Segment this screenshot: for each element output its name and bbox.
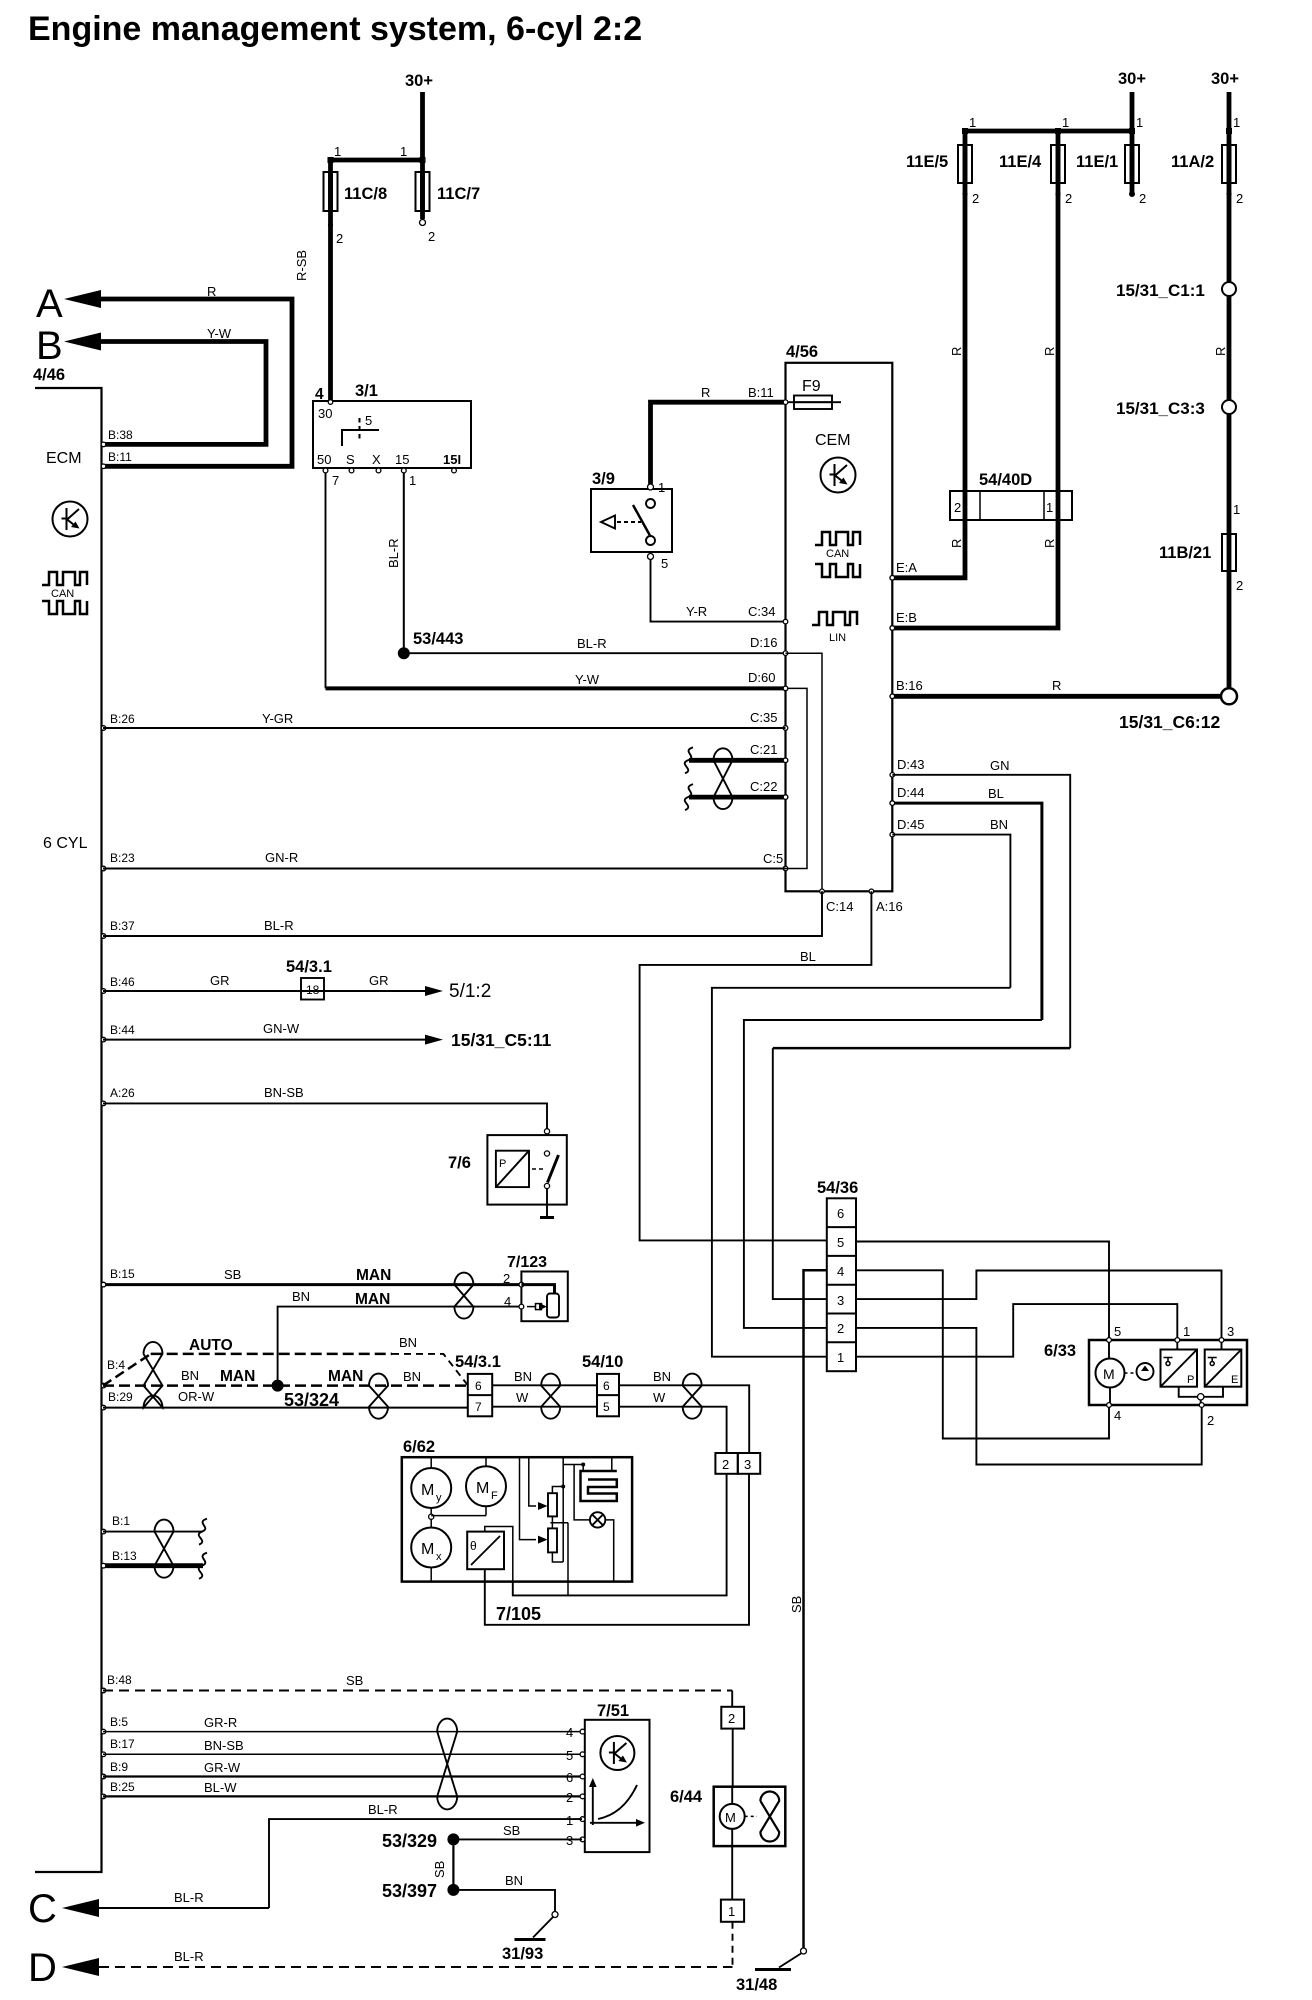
svg-text:R: R [1042, 347, 1057, 356]
svg-text:D:44: D:44 [897, 785, 924, 800]
connector node 15/31_C6:12 [1119, 688, 1237, 732]
svg-text:CAN: CAN [826, 548, 849, 560]
svg-text:54/10: 54/10 [582, 1353, 623, 1371]
svg-text:C:34: C:34 [748, 604, 775, 619]
svg-text:1: 1 [1233, 502, 1240, 517]
svg-text:2: 2 [728, 1711, 735, 1726]
svg-text:SB: SB [503, 1823, 520, 1838]
connector 54/40D [950, 471, 1072, 520]
svg-text:B:37: B:37 [110, 919, 135, 933]
svg-text:7/123: 7/123 [507, 1254, 547, 1271]
connector pins 2 and 3 of 6/62 [715, 1453, 760, 1474]
svg-text:W: W [653, 1390, 666, 1405]
svg-text:BN: BN [990, 817, 1008, 832]
svg-text:B:16: B:16 [896, 678, 923, 693]
svg-text:R: R [949, 539, 964, 548]
arrow D dashed wire BL-R [28, 1946, 733, 1990]
svg-text:15: 15 [395, 452, 409, 467]
svg-text:6: 6 [837, 1206, 844, 1221]
svg-text:A: A [36, 282, 63, 326]
svg-text:6/44: 6/44 [670, 1788, 703, 1806]
CEM LIN symbol [812, 612, 857, 644]
svg-text:BL-R: BL-R [174, 1890, 204, 1905]
wire R 54/40D:2 to CEM E:A [892, 520, 965, 578]
svg-text:Y-GR: Y-GR [262, 711, 293, 726]
svg-text:MAN: MAN [328, 1368, 363, 1385]
svg-text:X: X [372, 452, 381, 467]
svg-text:1: 1 [658, 480, 665, 495]
30+ feed (left) [328, 72, 434, 163]
svg-text:53/397: 53/397 [382, 1881, 437, 1901]
svg-text:y: y [436, 1492, 442, 1504]
svg-text:1: 1 [566, 1813, 573, 1828]
ECM pin B:1 stub wire [101, 1514, 207, 1545]
svg-text:6/62: 6/62 [403, 1438, 435, 1456]
fuse 11E/5 [906, 131, 979, 491]
svg-text:BN: BN [403, 1369, 421, 1384]
6/62 resistor R2 [548, 1523, 563, 1562]
svg-text:30+: 30+ [405, 72, 433, 90]
svg-text:B:11: B:11 [108, 450, 132, 464]
svg-text:11C/7: 11C/7 [437, 185, 480, 203]
svg-text:30+: 30+ [1118, 70, 1146, 88]
svg-text:C:22: C:22 [750, 779, 777, 794]
arrow B with wire Y-W from ECM B:38 [36, 324, 266, 444]
svg-text:C: C [28, 1887, 57, 1931]
svg-text:2: 2 [1139, 191, 1146, 206]
svg-text:D: D [28, 1946, 57, 1990]
svg-text:4: 4 [837, 1264, 844, 1279]
svg-text:2: 2 [837, 1321, 844, 1336]
svg-text:MAN: MAN [220, 1368, 255, 1385]
svg-text:2: 2 [428, 229, 435, 244]
wire BL CEM A:16 down to 54/36:5 [640, 891, 872, 1240]
svg-text:B:15: B:15 [110, 1267, 135, 1281]
connector 54/3.1 cells 6/7 [455, 1353, 501, 1416]
6/33 fuel level sensor E [1205, 1342, 1242, 1387]
CEM C:22 twisted stub [685, 784, 786, 810]
svg-text:F9: F9 [802, 378, 821, 395]
solenoid valve 7/123 [507, 1254, 568, 1321]
svg-text:BL-R: BL-R [264, 918, 294, 933]
svg-text:1: 1 [1046, 500, 1053, 515]
ground switch 31/48 [736, 1948, 807, 1994]
svg-text:θ: θ [470, 1539, 477, 1553]
ECM pin B:46 wire GR via 54/3.1:18 to 5/1:2 [101, 958, 491, 1002]
fuse F9 inside CEM [786, 378, 842, 409]
svg-text:GR: GR [210, 973, 230, 988]
wire BN 7/123 to splice 53/324 [278, 1289, 522, 1386]
splice 53/397 [382, 1881, 459, 1901]
svg-text:BL: BL [988, 786, 1004, 801]
7/51 characteristic curve symbol [589, 1778, 645, 1827]
svg-text:7/105: 7/105 [496, 1604, 541, 1624]
svg-text:B:4: B:4 [107, 1358, 125, 1372]
svg-text:SB: SB [346, 1673, 363, 1688]
wire BL CEM D:44 down to 54/36:2 [744, 786, 1042, 1328]
ECM pin B:17 wire BN-SB to 7/51:5 [101, 1737, 582, 1763]
6/62 indicator lamp [574, 1465, 614, 1582]
svg-text:54/40D: 54/40D [979, 471, 1032, 489]
svg-text:18: 18 [306, 983, 320, 997]
AC control unit 6/62 [402, 1438, 632, 1582]
pin markers over thick wires [101, 400, 894, 1568]
svg-text:GR: GR [369, 973, 389, 988]
svg-text:11E/4: 11E/4 [999, 153, 1042, 171]
svg-text:C:5: C:5 [763, 851, 783, 866]
svg-text:B:29: B:29 [108, 1390, 133, 1404]
svg-text:3: 3 [744, 1457, 751, 1472]
wire R 54/40D:1 to CEM E:B [892, 520, 1058, 628]
6/33 pump symbol [1137, 1363, 1154, 1380]
svg-text:7: 7 [332, 473, 339, 488]
twisted pair symbol between 54/3.1 and 54/10 [541, 1374, 560, 1419]
6/62 heater element [563, 1457, 617, 1501]
ECM pin B:29 wire OR-W [101, 1389, 468, 1410]
svg-text:31/48: 31/48 [736, 1976, 777, 1994]
svg-text:P: P [499, 1158, 506, 1170]
svg-text:R: R [1042, 539, 1057, 548]
svg-text:B:17: B:17 [110, 1737, 135, 1751]
svg-text:1: 1 [400, 144, 407, 159]
svg-text:1: 1 [409, 473, 416, 488]
svg-text:15/31_C6:12: 15/31_C6:12 [1119, 712, 1220, 732]
svg-text:P: P [1187, 1374, 1194, 1386]
svg-text:C:14: C:14 [826, 899, 853, 914]
svg-text:ECM: ECM [46, 450, 82, 467]
fuse 11C/8 [294, 160, 387, 401]
svg-text:C:21: C:21 [750, 742, 777, 757]
svg-text:4/56: 4/56 [786, 343, 818, 361]
svg-text:6: 6 [566, 1770, 573, 1785]
svg-text:Y-R: Y-R [686, 604, 707, 619]
wire 7/105 from pin 3 to temp sensor [485, 1474, 749, 1625]
svg-text:SB: SB [789, 1596, 804, 1613]
ECM K symbol [53, 502, 88, 537]
svg-text:S: S [346, 452, 355, 467]
6/33 fuel level sensor P [1161, 1342, 1198, 1387]
svg-text:11A/2: 11A/2 [1171, 153, 1214, 171]
svg-text:D:45: D:45 [897, 817, 924, 832]
ECM pin B:9 wire GR-W to 7/51:6 [101, 1760, 582, 1785]
svg-text:1: 1 [1136, 115, 1143, 130]
svg-text:1: 1 [728, 1904, 735, 1919]
connector node 15/31_C1:1 [1116, 281, 1236, 300]
wire pin2 to 6/44 [732, 1729, 734, 1787]
svg-text:30: 30 [318, 406, 332, 421]
wire BL-R splice to CEM D:16 [410, 636, 786, 653]
ECM pin B:5 wire GR-R to 7/51:4 [101, 1715, 582, 1740]
svg-text:54/36: 54/36 [817, 1179, 858, 1197]
svg-text:F: F [491, 1490, 498, 1502]
svg-text:2: 2 [1236, 191, 1243, 206]
wire BL-R from 3/1 pin 15 to splice [386, 473, 404, 653]
svg-text:B:1: B:1 [112, 1514, 130, 1528]
wire Y-R 3/9 pin5 to CEM C:34 [651, 560, 786, 622]
svg-text:15/31_C5:11: 15/31_C5:11 [451, 1030, 551, 1050]
svg-text:54/3.1: 54/3.1 [455, 1353, 501, 1371]
svg-text:11B/21: 11B/21 [1159, 544, 1211, 562]
svg-text:BL-R: BL-R [386, 538, 401, 568]
6/62 resistor feed wires [520, 1457, 548, 1543]
svg-text:BL: BL [800, 949, 816, 964]
twisted pair symbol before 54/3.1 [369, 1374, 388, 1419]
svg-text:53/329: 53/329 [382, 1831, 437, 1851]
CEM left pins [748, 604, 788, 871]
svg-text:MAN: MAN [355, 1291, 390, 1308]
svg-text:3: 3 [566, 1833, 573, 1848]
svg-text:D:16: D:16 [750, 635, 777, 650]
CEM right pins [890, 560, 924, 837]
svg-text:OR-W: OR-W [178, 1389, 215, 1404]
ground below 7/6 [540, 1189, 554, 1218]
svg-text:50: 50 [317, 452, 331, 467]
ECM pin A:26 wire BN-SB to 7/6 [101, 1085, 547, 1129]
wire 54/36:2 to 6/33:2 [856, 1328, 1202, 1465]
twisted pair symbol C:21/C:22 [714, 748, 733, 809]
svg-text:5: 5 [603, 1400, 610, 1414]
fuel pump unit 6/33 [1044, 1324, 1247, 1428]
6/33 internal junction to pin 2 [1179, 1387, 1223, 1403]
svg-text:3/9: 3/9 [592, 470, 615, 488]
ECM pin B:48 dashed wire SB [101, 1673, 732, 1707]
svg-text:BN: BN [181, 1368, 199, 1383]
right 30+ feed over 11E fuses [962, 70, 1146, 134]
svg-text:CEM: CEM [815, 432, 851, 449]
svg-text:1: 1 [969, 115, 976, 130]
svg-text:MAN: MAN [356, 1267, 391, 1284]
30+ feed far right 11A/2 [1171, 70, 1243, 356]
ECM 4/46 control module box [33, 366, 102, 1872]
svg-text:5: 5 [661, 556, 668, 571]
svg-text:BN: BN [505, 1873, 523, 1888]
svg-text:4/46: 4/46 [33, 366, 65, 384]
twisted pair symbol after 54/10 [683, 1374, 702, 1419]
ECM pin B:4 dashed wires AUTO / MAN [101, 1335, 468, 1388]
svg-text:11E/1: 11E/1 [1076, 153, 1118, 171]
svg-text:R-SB: R-SB [294, 250, 309, 281]
svg-text:7: 7 [475, 1400, 482, 1414]
svg-text:2: 2 [1236, 578, 1243, 593]
6/62 internal motor links [429, 1506, 486, 1581]
svg-text:A:26: A:26 [110, 1086, 135, 1100]
fuse 11B/21 [1159, 414, 1243, 689]
wire BN 53/397 to ground switch [459, 1873, 558, 1938]
svg-text:BL-R: BL-R [174, 1949, 204, 1964]
AC controller 7/51 [580, 1702, 649, 1852]
ECM pin B:15 wire SB to 7/123 [101, 1267, 521, 1287]
wire 54/36:3 to 6/33:3 [856, 1271, 1222, 1339]
wires BN / W between 54/3.1 and 54/10 [492, 1369, 597, 1407]
wire Y-W from 3/1 pin 50 to CEM D:60 [326, 473, 786, 688]
svg-text:SB: SB [224, 1267, 241, 1282]
svg-text:B:25: B:25 [110, 1780, 135, 1794]
ECM pin B:25 wire BL-W to 7/51:2 [101, 1780, 582, 1805]
svg-text:B:23: B:23 [110, 851, 135, 865]
twisted pair symbol B:1/B:13 [155, 1520, 174, 1578]
svg-text:4: 4 [566, 1725, 573, 1740]
CEM C:21 twisted stub [685, 747, 786, 773]
CEM 4/56 central electronic module [786, 343, 893, 891]
svg-text:31/93: 31/93 [502, 1945, 543, 1963]
svg-text:6: 6 [603, 1379, 610, 1393]
svg-text:15/31_C3:3: 15/31_C3:3 [1116, 399, 1205, 418]
splice 53/329 [382, 1831, 459, 1851]
svg-text:AUTO: AUTO [189, 1337, 233, 1354]
6/33 pump motor M [1096, 1342, 1137, 1403]
svg-text:6/33: 6/33 [1044, 1342, 1076, 1360]
connector 54/10 cells 6/5 [582, 1353, 623, 1416]
wire 54/36:4 to 6/33:4 [856, 1270, 1109, 1438]
svg-text:GR-R: GR-R [204, 1715, 237, 1730]
svg-text:E: E [1231, 1374, 1238, 1386]
svg-text:Y-W: Y-W [575, 672, 600, 687]
svg-text:1: 1 [1183, 1324, 1190, 1339]
ECM pin B:37 wire BL-R to CEM C:14 [101, 891, 822, 938]
svg-text:11C/8: 11C/8 [344, 185, 387, 203]
svg-text:E:A: E:A [896, 560, 917, 575]
7/51 K symbol [600, 1736, 634, 1770]
wire SB 7/51:3 to splice 53/329 [459, 1823, 582, 1848]
ignition switch 3/1 [313, 382, 471, 488]
svg-text:1: 1 [1062, 115, 1069, 130]
CEM bottom pins C:14 / A:16 [820, 889, 903, 914]
twisted pair symbol on 7/51 harness [437, 1719, 457, 1810]
wire BL-R 7/51:1 to arrow C [28, 1802, 582, 1931]
triple twisted pair symbol at ECM B:4/B:29 [144, 1342, 163, 1408]
svg-text:B:48: B:48 [107, 1673, 132, 1687]
svg-text:BN: BN [514, 1369, 532, 1384]
svg-text:BL-R: BL-R [577, 636, 607, 651]
svg-text:2: 2 [722, 1457, 729, 1472]
svg-text:GN-R: GN-R [265, 850, 298, 865]
svg-text:Y-W: Y-W [207, 326, 232, 341]
wire SB between splices [432, 1845, 453, 1884]
svg-text:D:60: D:60 [748, 670, 775, 685]
wires BN / W after 54/10 [619, 1369, 749, 1453]
svg-text:4: 4 [504, 1294, 511, 1309]
svg-text:54/3.1: 54/3.1 [286, 958, 332, 976]
svg-text:BN: BN [292, 1289, 310, 1304]
CEM internal link D:16 to C:14 [786, 653, 823, 891]
svg-text:R: R [949, 347, 964, 356]
svg-text:B:13: B:13 [112, 1549, 137, 1563]
svg-text:15/31_C1:1: 15/31_C1:1 [1116, 281, 1205, 300]
svg-text:1: 1 [334, 144, 341, 159]
wire R CEM B:16 to 15/31_C6:12 [892, 678, 1221, 696]
fuse 11E/4 [999, 131, 1072, 491]
6/62 motor My [411, 1457, 451, 1508]
6/62 resistor R1 [548, 1457, 568, 1595]
svg-text:53/443: 53/443 [413, 630, 463, 648]
splice 53/324 [272, 1380, 339, 1410]
svg-text:R: R [207, 284, 216, 299]
lamp check switch 3/9 [591, 470, 672, 571]
svg-text:BN-SB: BN-SB [264, 1085, 304, 1100]
svg-text:2: 2 [503, 1271, 510, 1286]
svg-text:1: 1 [1233, 115, 1240, 130]
svg-text:2: 2 [954, 500, 961, 515]
svg-text:5/1:2: 5/1:2 [449, 981, 491, 1002]
ECM pin B:26 wire Y-GR to CEM C:35 [101, 711, 785, 730]
svg-text:CAN: CAN [51, 588, 74, 600]
wire BN CEM D:45 down to 54/36:1 [712, 817, 1011, 1357]
splice 53/443 [398, 630, 464, 659]
svg-text:7/6: 7/6 [448, 1154, 471, 1172]
fuse 11E/1 [1076, 131, 1146, 206]
svg-text:3/1: 3/1 [355, 382, 378, 400]
connector node 15/31_C3:3 [1116, 399, 1236, 418]
svg-text:BL-R: BL-R [368, 1802, 398, 1817]
svg-text:B:44: B:44 [110, 1023, 135, 1037]
ground 31/93 [502, 1940, 546, 1964]
svg-text:GN-W: GN-W [263, 1021, 300, 1036]
svg-text:BN: BN [399, 1335, 417, 1350]
svg-text:W: W [516, 1390, 529, 1405]
svg-text:BN: BN [653, 1369, 671, 1384]
wire GN CEM D:43 down to 54/36:3 [773, 758, 1070, 1299]
connector pin 2 of 6/44 [721, 1707, 744, 1729]
svg-text:3: 3 [1227, 1324, 1234, 1339]
svg-text:B:46: B:46 [110, 975, 135, 989]
svg-text:B:9: B:9 [110, 1760, 128, 1774]
svg-text:30+: 30+ [1211, 70, 1239, 88]
svg-text:M: M [421, 1482, 434, 1499]
wire 54/36:5 to 6/33:5 [856, 1242, 1109, 1339]
svg-text:2: 2 [566, 1790, 573, 1805]
wire SB 54/36:4 down to ground 31/48 [789, 1270, 827, 1948]
svg-text:x: x [436, 1551, 442, 1563]
6/62 motor MF [466, 1457, 506, 1506]
svg-text:GN: GN [990, 758, 1010, 773]
ECM pin B:23 wire GN-R to CEM C:5 [101, 850, 785, 871]
svg-text:BN-SB: BN-SB [204, 1738, 244, 1753]
wire R between C1:1 and C3:3 [1227, 296, 1232, 400]
connector pin 1 of 6/44 [721, 1900, 744, 1967]
svg-text:7/51: 7/51 [597, 1702, 629, 1720]
arrow A with wire R from ECM B:11 [36, 282, 292, 466]
svg-text:M: M [1103, 1366, 1115, 1382]
fuse 11C/7 [416, 160, 481, 244]
svg-text:R: R [1213, 347, 1228, 356]
svg-text:3: 3 [837, 1293, 844, 1308]
CEM internal link D:60 to C:5 [786, 688, 808, 868]
svg-text:5: 5 [566, 1748, 573, 1763]
svg-text:2: 2 [336, 231, 343, 246]
svg-text:B: B [36, 324, 63, 368]
svg-text:C:35: C:35 [750, 710, 777, 725]
svg-text:GR-W: GR-W [204, 1760, 241, 1775]
svg-text:R: R [1052, 678, 1061, 693]
CEM K symbol [821, 458, 856, 493]
connector 54/36 [817, 1179, 858, 1371]
twisted pair symbol at 7/123 [454, 1273, 473, 1319]
svg-text:1: 1 [837, 1350, 844, 1365]
svg-text:M: M [476, 1480, 489, 1497]
svg-text:M: M [421, 1541, 434, 1558]
svg-text:5: 5 [1114, 1324, 1121, 1339]
svg-text:D:43: D:43 [897, 757, 924, 772]
svg-text:11E/5: 11E/5 [906, 153, 948, 171]
svg-text:5: 5 [837, 1235, 844, 1250]
svg-text:M: M [725, 1810, 736, 1825]
6/62 temperature sensor box [467, 1527, 513, 1582]
svg-text:6: 6 [475, 1379, 482, 1393]
svg-text:2: 2 [1065, 191, 1072, 206]
fan motor 6/44 [670, 1787, 785, 1900]
svg-text:A:16: A:16 [876, 899, 903, 914]
svg-text:E:B: E:B [896, 610, 917, 625]
